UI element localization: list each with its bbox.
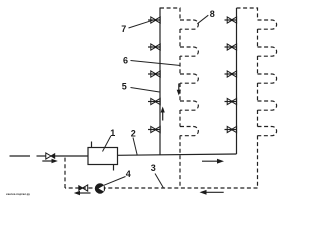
heater bottom stub	[113, 165, 115, 171]
svg-text:1: 1	[110, 128, 115, 138]
leader line label 5	[131, 88, 160, 93]
svg-text:3: 3	[151, 163, 156, 173]
leader line label 6	[131, 61, 181, 66]
water heater U1 (rectangle)	[88, 148, 118, 165]
valve on cold water inlet	[46, 153, 55, 159]
leader line label 8	[197, 15, 208, 24]
towel warmer loop riser2 floor1	[258, 20, 277, 29]
svg-text:5: 5	[122, 81, 127, 91]
leader line label 2	[133, 138, 137, 156]
flow arrow right (under inlet valve)	[42, 159, 58, 163]
circulation riser 2 segment	[257, 29, 259, 47]
towel warmer loop riser1 floor1	[180, 20, 198, 29]
svg-text:4: 4	[126, 169, 131, 179]
svg-text:7: 7	[121, 24, 126, 34]
leader line label 7	[129, 20, 153, 28]
heater top stub	[91, 142, 93, 148]
towel warmer loop riser1 floor2	[180, 47, 198, 56]
down arrow on circulation riser 1	[177, 84, 181, 96]
circulation riser 2 segment	[257, 56, 259, 74]
dashed bridge riser2 top	[237, 8, 258, 20]
wire: dashed branch up to supply	[64, 156, 66, 188]
svg-text:сантех-портал.ру: сантех-портал.ру	[6, 192, 30, 196]
towel warmer loop riser1 floor4	[180, 101, 198, 110]
circulation riser 1 segment	[179, 56, 181, 74]
flow arrow right on supply main	[202, 159, 224, 164]
circulation riser 1 segment	[179, 110, 181, 127]
valve riser1 floor3	[148, 71, 160, 77]
circulation riser 2 segment	[257, 83, 259, 101]
svg-text:8: 8	[210, 9, 215, 19]
up arrow on supply riser 1	[161, 107, 165, 121]
leader line label 4	[104, 177, 126, 186]
valve riser1 base	[148, 126, 160, 132]
valve riser1 floor4	[148, 98, 160, 104]
valve riser1 floor2	[148, 44, 160, 50]
towel warmer loop riser2 floor3	[258, 74, 277, 83]
valve riser1 floor1	[148, 17, 160, 23]
circulation riser 1 segment	[179, 83, 181, 101]
wire: supply main (heater to risers)	[118, 154, 237, 155]
circulation riser 1 segment	[179, 29, 181, 47]
svg-text:2: 2	[131, 128, 136, 138]
leader line label 1	[103, 136, 111, 152]
leader line label 3	[155, 174, 164, 189]
wire: circulation return main (dashed)	[65, 187, 258, 189]
circulation riser 2 drop to return	[257, 136, 259, 189]
circulation riser 1 drop to return	[179, 136, 181, 189]
flow arrow left on return main	[200, 190, 224, 195]
supply riser 1 (solid)	[159, 8, 161, 155]
circulation pump P1	[95, 184, 104, 193]
valve riser2 base	[225, 126, 237, 132]
wire: inlet to heater	[55, 155, 88, 157]
circulation riser 2 segment	[257, 110, 259, 127]
towel warmer loop riser2 floor4	[258, 101, 277, 110]
towel warmer loop riser2 floor2	[258, 47, 277, 56]
svg-text:6: 6	[123, 55, 128, 65]
valve riser2 floor4	[225, 98, 237, 104]
valve on return line	[78, 185, 87, 191]
valve riser2 floor3	[225, 71, 237, 77]
valve riser2 floor1	[225, 17, 237, 23]
valve riser2 floor2	[225, 44, 237, 50]
towel warmer loop riser1 base	[180, 127, 198, 136]
wire: cold water inlet dash	[10, 155, 31, 157]
towel warmer loop riser2 base	[258, 127, 277, 136]
supply riser 2 (solid)	[236, 8, 238, 154]
flow arrow left (under return valve)	[74, 191, 91, 195]
towel warmer loop riser1 floor3	[180, 74, 198, 83]
wire: inlet segment before valve	[37, 155, 47, 157]
dashed bridge riser1 top	[160, 8, 180, 20]
